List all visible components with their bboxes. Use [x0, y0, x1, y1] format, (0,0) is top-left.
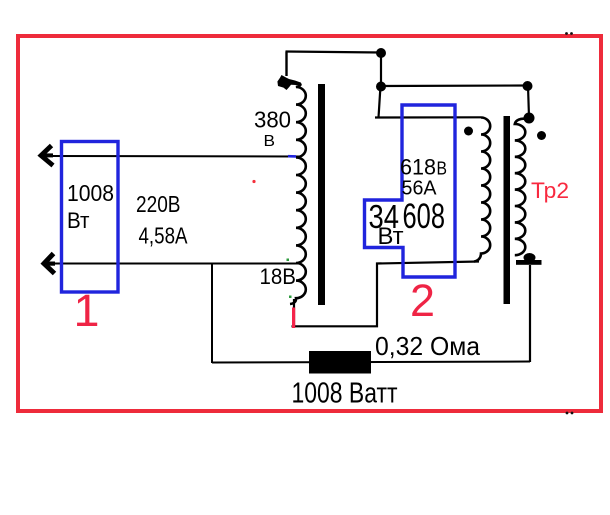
wire bottom rail left vertical [211, 264, 213, 364]
wire node B to node C [381, 84, 527, 87]
transformer Tp2 secondary winding [515, 119, 526, 255]
wire T1 bottom to box2 bottom node [292, 262, 480, 327]
svg-text:380: 380 [254, 107, 291, 133]
svg-text:Вт: Вт [378, 223, 404, 250]
svg-text:В: В [264, 133, 276, 150]
load box 2 outline [365, 105, 456, 277]
wire from blob to top node [286, 52, 382, 77]
ink speck bottom border [566, 412, 574, 415]
svg-text:0,32 Ома: 0,32 Ома [375, 331, 481, 361]
svg-text:В: В [437, 159, 448, 179]
label 618В [400, 155, 447, 180]
red dot mark [252, 180, 255, 183]
svg-text:618: 618 [400, 155, 436, 180]
polarity dot Tp2 primary [464, 127, 473, 136]
core of Tp2 [504, 116, 511, 304]
node D junction dot [524, 113, 535, 124]
svg-text:Тр2: Тр2 [531, 178, 569, 203]
svg-text:220В: 220В [136, 191, 181, 217]
svg-text:1: 1 [74, 285, 100, 336]
wire bottom rail right vertical [529, 265, 531, 362]
svg-text:1008 Ватт: 1008 Ватт [292, 377, 398, 409]
wire node B down to Tp2 primary top [375, 86, 481, 118]
polarity dot Tp2 secondary [537, 131, 546, 140]
Tp2 secondary bottom terminal blob [516, 253, 542, 265]
wire node C down to Tp2 secondary top [528, 86, 529, 117]
green speck near winding bottom [289, 296, 292, 299]
autotransformer T1 winding [290, 84, 306, 305]
wire node A to node B [380, 53, 382, 86]
load box 1 [62, 142, 119, 293]
ink speck top border [565, 32, 573, 35]
wire W1 top output with arrow [41, 146, 299, 166]
svg-text:2: 2 [410, 275, 435, 326]
core of T1 [318, 84, 325, 305]
wire bottom rail horizontal [212, 362, 530, 363]
svg-text:4,58А: 4,58А [139, 223, 189, 249]
transformer Tp2 primary winding [474, 118, 490, 262]
red tick at T1 winding bottom [292, 308, 295, 329]
svg-text:1008: 1008 [67, 180, 114, 206]
node A junction dot [376, 48, 386, 58]
svg-text:Вт: Вт [67, 208, 90, 233]
node C junction dot [523, 81, 533, 91]
label 380 В [254, 107, 291, 150]
label 1008 Вт [67, 180, 114, 233]
autotransformer T1 winding blob terminal [277, 75, 301, 90]
svg-text:608: 608 [403, 197, 446, 236]
resistor R1 0,32 Ома [309, 351, 371, 374]
node B junction dot [376, 82, 386, 92]
svg-text:18В: 18В [260, 264, 297, 289]
blue tick on wire at coil tap [288, 155, 296, 158]
green speck near 18В tap [287, 259, 290, 262]
wire W2 bottom output with arrow [44, 254, 301, 274]
